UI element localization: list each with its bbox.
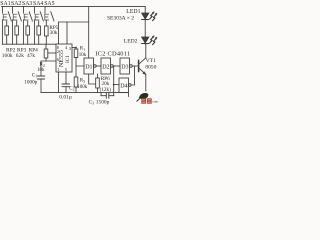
svg-text:30k: 30k [50, 30, 58, 36]
svg-text:D3: D3 [121, 64, 128, 70]
svg-text:1500p: 1500p [96, 99, 110, 105]
wire D1 out [96, 65, 101, 67]
svg-text:3: 3 [92, 102, 94, 106]
wire SA3 down [23, 20, 25, 44]
label D3 [121, 64, 128, 70]
switch SA2 [13, 6, 22, 21]
bolt LED1 b [153, 13, 158, 21]
label R2 10k [37, 63, 45, 73]
bolt LED2 a [150, 35, 155, 43]
resistor R1 [74, 48, 78, 58]
resistor RP2 [15, 21, 19, 44]
wire D4 input [114, 84, 119, 86]
gate D4 [119, 78, 131, 93]
svg-text:2: 2 [73, 88, 75, 92]
pin 5 [65, 67, 68, 72]
label D2 [102, 64, 109, 70]
watermark logo leaf [137, 93, 149, 102]
label SA5 [44, 1, 54, 7]
gate D1 [84, 58, 96, 74]
label R5 100k [77, 79, 88, 90]
svg-text:IC1: IC1 [65, 55, 71, 63]
svg-text:1: 1 [83, 48, 85, 52]
resistor RP3 [26, 21, 30, 44]
label SA2 [11, 1, 21, 7]
svg-text:4: 4 [65, 45, 68, 50]
svg-text:D4: D4 [120, 84, 127, 90]
label 160k [2, 53, 13, 59]
label VT1 8050 [145, 58, 156, 71]
wire D4 output to riser [131, 66, 134, 85]
resistor RP1 [5, 21, 9, 44]
wire pot common bus [3, 43, 57, 45]
svg-text:5: 5 [83, 80, 85, 84]
wire pin3 out [72, 47, 76, 49]
svg-text:LED2: LED2 [124, 39, 138, 45]
LED LED2 [142, 37, 149, 44]
label NE555 IC1 [59, 50, 71, 67]
wire between LEDs [144, 20, 146, 38]
label D1 [85, 64, 92, 70]
svg-text:5: 5 [65, 67, 68, 72]
wire LED2 to collector [144, 43, 146, 46]
gate D2 [101, 58, 113, 74]
svg-text:160k: 160k [2, 53, 13, 59]
svg-text:0.01µ: 0.01µ [59, 94, 72, 100]
timer IC1 NE555 [56, 44, 72, 72]
switch SA1 [3, 6, 12, 21]
LED LED1 [142, 13, 149, 20]
wire D2 out [113, 65, 120, 67]
svg-text:VT1: VT1 [146, 58, 156, 64]
label RP4 [29, 48, 39, 54]
wire vcc riser [88, 6, 90, 58]
capacitor C3 [101, 93, 114, 99]
pin 2 [57, 49, 59, 54]
svg-text:100k: 100k [77, 85, 88, 90]
resistor R5 [74, 66, 78, 93]
label 47k [27, 53, 35, 59]
wire emitter down [145, 74, 147, 91]
pin 8 [57, 45, 60, 50]
wire D1 bottom [89, 74, 96, 84]
svg-text:(12k): (12k) [100, 86, 112, 93]
label SA4 [33, 1, 43, 7]
wire pin1 down [58, 72, 60, 93]
wire SA1 down [2, 20, 4, 44]
wire R1 to D1 input [76, 58, 84, 67]
label LED1 [126, 9, 140, 15]
ground bus [41, 92, 129, 94]
label RP3 [17, 48, 27, 54]
node feedback-D4 [113, 84, 115, 86]
switch SA3 [24, 6, 33, 21]
svg-text:LED1: LED1 [126, 9, 140, 15]
bolt LED2 b [153, 37, 158, 45]
switch SA5 [45, 6, 54, 21]
gate D3 [120, 58, 132, 74]
switch SA4 [35, 6, 44, 21]
bolt LED1 a [150, 11, 155, 19]
label D4 [120, 84, 127, 90]
label RP6 20k (12k) [100, 76, 112, 93]
label C3 1500p [89, 99, 110, 105]
svg-text:D2: D2 [102, 64, 109, 70]
svg-text:1: 1 [35, 75, 37, 79]
svg-text:1: 1 [57, 67, 59, 72]
svg-text:10k: 10k [79, 53, 87, 58]
svg-text:47k: 47k [27, 53, 35, 59]
wire SA2 down [12, 20, 14, 44]
label C2 0.01u [59, 86, 74, 100]
wire D3 out to base [132, 65, 138, 67]
svg-text:com: com [152, 100, 158, 104]
svg-text:D1: D1 [85, 64, 92, 70]
pin 1 [57, 67, 59, 72]
svg-text:8050: 8050 [145, 64, 156, 70]
wire vcc link [59, 21, 89, 23]
pin 4 [65, 45, 68, 50]
capacitor C1 [38, 76, 45, 93]
label R1 10k [79, 47, 87, 58]
svg-text:SE303A × 2: SE303A × 2 [107, 15, 134, 21]
svg-text:1000p: 1000p [24, 80, 37, 86]
pin 6 [57, 57, 60, 62]
wire pin4 up [66, 22, 68, 44]
label RP5 30k [49, 25, 58, 36]
wire led riser [144, 6, 146, 13]
label IC2 CD4011 [95, 51, 130, 58]
label RP2 [6, 48, 16, 54]
wire SA4 down [34, 20, 36, 44]
label SE303A x2 [107, 15, 134, 21]
node pin3-R1 [75, 47, 77, 49]
resistor RP4 [37, 21, 41, 44]
label C1 1500p [24, 73, 37, 85]
wire pin8 up [58, 22, 60, 44]
resistor RP6 [96, 74, 100, 93]
wire feedback riser [113, 66, 115, 96]
label SA1 [0, 1, 10, 7]
watermark red characters [141, 98, 151, 103]
wire collector up [145, 44, 147, 58]
svg-text:62k: 62k [16, 53, 24, 59]
pin 3 [69, 46, 72, 51]
svg-text:3: 3 [69, 46, 72, 51]
label LED2 [124, 39, 138, 45]
label SA3 [22, 1, 32, 7]
label 62k [16, 53, 24, 59]
wire pin6 to C1 [41, 61, 56, 76]
svg-text:IC2 CD4011: IC2 CD4011 [95, 51, 130, 58]
wire top supply bus [2, 5, 146, 7]
watermark small grey text [152, 100, 158, 104]
wire pin2 stub [48, 52, 56, 54]
svg-text:2: 2 [57, 49, 59, 54]
transistor VT1 8050 [139, 58, 146, 75]
capacitor C2 [62, 72, 70, 93]
wire bus end tick [128, 93, 130, 97]
resistor RP5 [45, 20, 49, 44]
resistor R2 [44, 44, 48, 61]
